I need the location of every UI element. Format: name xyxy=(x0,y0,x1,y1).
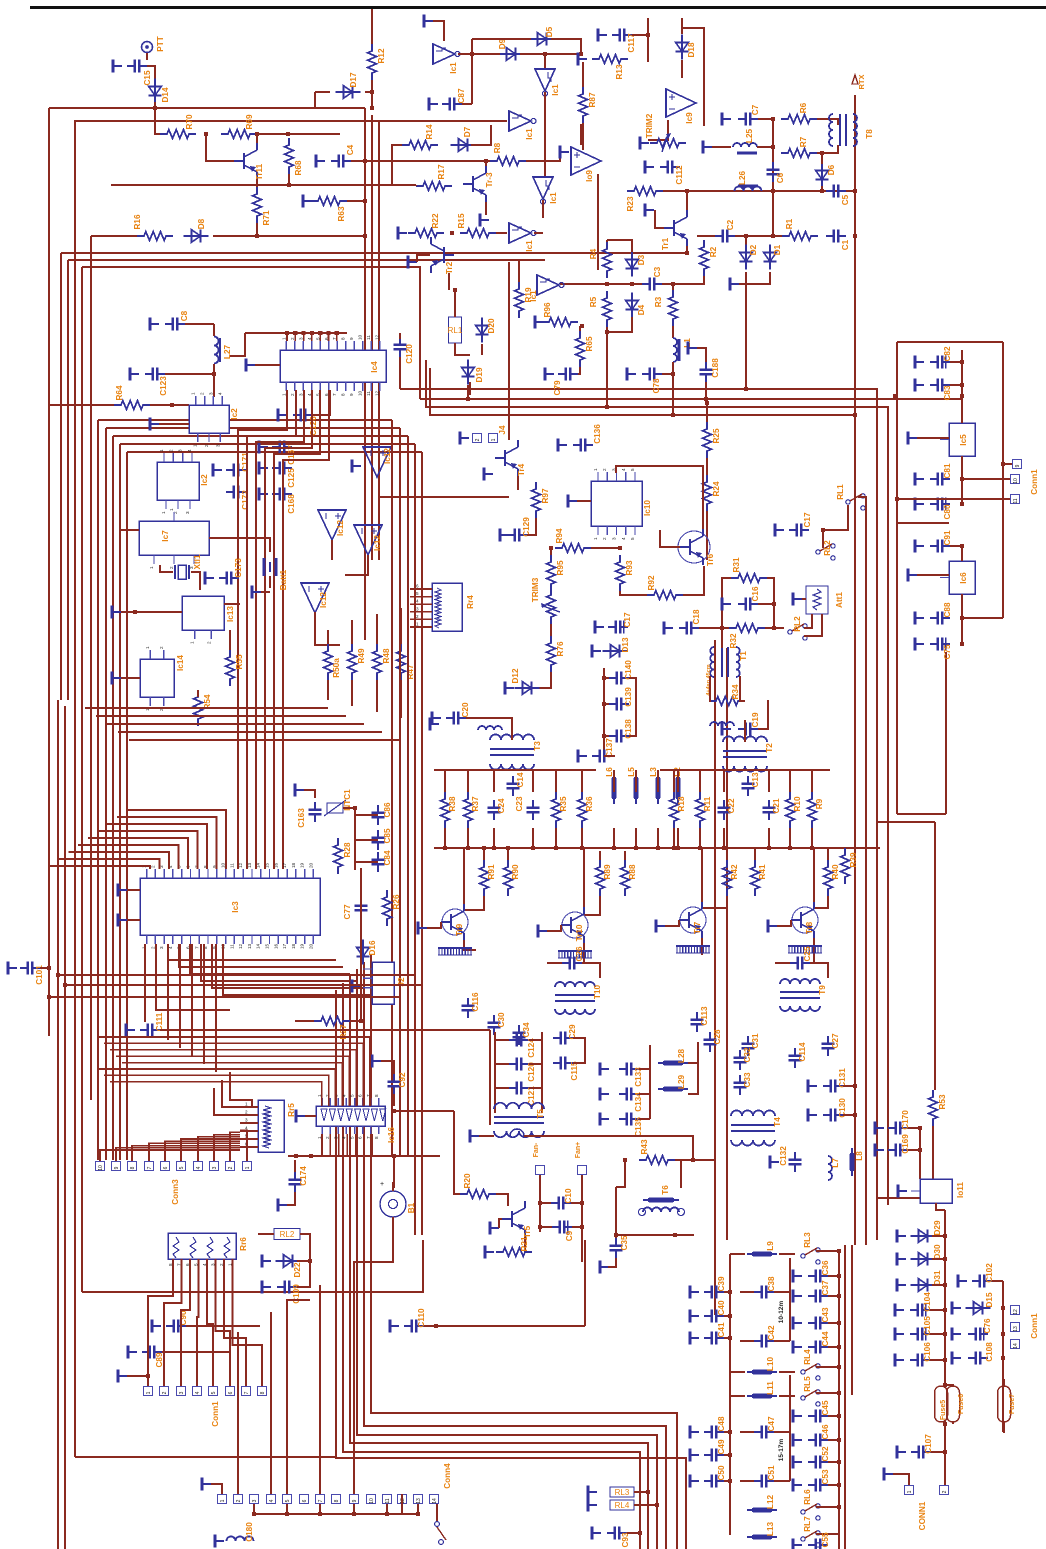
junction xyxy=(837,1345,841,1349)
wire xyxy=(683,566,704,595)
ground xyxy=(656,920,665,933)
capacitor C117 xyxy=(612,29,632,42)
resistor R65 xyxy=(576,331,585,367)
svg-text:5: 5 xyxy=(194,1263,199,1266)
wire xyxy=(229,630,231,650)
ground xyxy=(895,1328,904,1341)
wire row y997 xyxy=(49,996,400,998)
svg-text:2: 2 xyxy=(475,438,481,441)
resistor R2 xyxy=(700,240,709,276)
ground xyxy=(793,593,802,606)
junction xyxy=(153,106,157,110)
svg-text:4: 4 xyxy=(307,337,312,340)
wire xyxy=(822,530,824,548)
diode D22 xyxy=(276,1255,301,1268)
wire bank to bus xyxy=(444,828,446,848)
wire Ic12 out xyxy=(379,479,509,497)
svg-text:16: 16 xyxy=(273,943,278,949)
wire xyxy=(527,518,536,535)
ground xyxy=(259,441,268,454)
ground xyxy=(215,1535,224,1548)
wire rail x495 xyxy=(494,1032,496,1113)
T6 ring left xyxy=(639,1209,646,1216)
capacitor C54 xyxy=(808,1539,828,1549)
svg-text:D30: D30 xyxy=(933,1244,942,1259)
wire vbus x372 xyxy=(371,115,373,560)
svg-text:9: 9 xyxy=(114,1166,120,1169)
wire xyxy=(930,1333,945,1335)
wire Conn1 pin xyxy=(164,1270,182,1386)
wire xyxy=(376,614,378,644)
svg-text:C38: C38 xyxy=(767,1276,776,1291)
ground xyxy=(600,1261,609,1274)
junction xyxy=(634,846,638,850)
svg-text:2: 2 xyxy=(228,1166,234,1169)
ground xyxy=(875,1122,884,1135)
wire xyxy=(481,344,483,355)
svg-text:14: 14 xyxy=(1013,1343,1019,1349)
wire left bus 4 xyxy=(74,120,76,1457)
svg-text:R89: R89 xyxy=(603,864,612,879)
inductor C180 xyxy=(227,1537,254,1542)
wire bank to rail xyxy=(581,770,583,792)
inductor L3 xyxy=(657,772,659,804)
wire Conn3 pin xyxy=(240,1130,247,1161)
wire Ic16 bottom pins xyxy=(363,1134,365,1156)
svg-text:C16: C16 xyxy=(751,586,760,601)
capacitor C173 xyxy=(219,572,239,585)
wire xyxy=(347,200,365,202)
wire xyxy=(606,240,608,242)
wire nested bundle xyxy=(364,962,666,1549)
svg-text:C17: C17 xyxy=(623,612,632,627)
svg-text:C26: C26 xyxy=(575,946,584,961)
svg-text:C20: C20 xyxy=(461,702,470,717)
inductor L13 xyxy=(747,1536,777,1538)
resistor R92 xyxy=(647,591,683,600)
wire rail x730 xyxy=(729,1254,731,1535)
svg-text:3: 3 xyxy=(211,1263,216,1266)
junction xyxy=(285,331,289,335)
svg-text:C9: C9 xyxy=(565,1230,574,1241)
wire xyxy=(699,627,729,629)
wire xyxy=(607,317,632,332)
wire xyxy=(540,1226,552,1228)
wire xyxy=(213,364,215,397)
svg-text:L28: L28 xyxy=(677,1049,686,1064)
relay RL1 xyxy=(448,317,463,343)
wire xyxy=(697,1042,699,1063)
capacitor C116 xyxy=(462,998,475,1018)
wire xyxy=(686,246,688,253)
svg-text:C115: C115 xyxy=(570,1061,579,1081)
inductor L9 xyxy=(747,1253,777,1255)
wire R53 feed xyxy=(934,822,936,1090)
svg-text:2: 2 xyxy=(162,1391,168,1394)
svg-text:C82: C82 xyxy=(943,346,952,361)
svg-text:L27: L27 xyxy=(223,344,232,359)
ground xyxy=(915,498,924,511)
svg-text:2: 2 xyxy=(204,444,209,447)
svg-text:4: 4 xyxy=(621,468,626,471)
capacitor C76 xyxy=(968,1328,988,1341)
junction xyxy=(353,806,357,810)
ground xyxy=(627,368,636,381)
svg-text:13: 13 xyxy=(416,1498,422,1504)
pad Conn1-9 xyxy=(1013,460,1022,469)
ground xyxy=(568,495,577,508)
resistor R97b xyxy=(532,482,541,518)
svg-text:C36: C36 xyxy=(821,1260,830,1275)
pad Conn1-7 xyxy=(242,1387,251,1396)
resistor R41 xyxy=(751,860,760,896)
capacitor C13 xyxy=(742,776,755,796)
junction xyxy=(605,282,609,286)
capacitor C108 xyxy=(968,1352,988,1365)
trimmer TRIM2 arrow xyxy=(662,135,668,152)
ground xyxy=(112,606,121,619)
pad Conn3-4 xyxy=(194,1162,203,1171)
fuse Fuse5 xyxy=(935,1386,948,1422)
capacitor C170 xyxy=(888,1122,908,1135)
svg-text:Tr4: Tr4 xyxy=(517,463,526,476)
ground xyxy=(150,318,159,331)
wire xyxy=(150,404,189,406)
wire xyxy=(327,630,329,644)
resistor R3 xyxy=(669,290,678,326)
wire bank to bus xyxy=(768,828,770,848)
svg-text:1: 1 xyxy=(245,1102,248,1107)
junction xyxy=(960,383,964,387)
wire Ic4 down to Ic3 xyxy=(247,390,296,869)
svg-text:Ic14: Ic14 xyxy=(176,655,185,671)
svg-text:Conn3: Conn3 xyxy=(171,1179,180,1205)
wire xyxy=(392,1217,394,1228)
pad Conn1-2 xyxy=(160,1387,169,1396)
capacitor C188 xyxy=(700,362,713,382)
wire xyxy=(534,232,543,234)
fuse Fuse7 xyxy=(998,1386,1011,1422)
svg-text:RL2: RL2 xyxy=(823,540,832,556)
ground xyxy=(690,1475,699,1488)
svg-text:C77: C77 xyxy=(343,904,352,919)
wire left bus 10 xyxy=(119,444,121,1160)
junction xyxy=(618,546,622,550)
wire Ic3 pin up xyxy=(246,690,248,869)
junction xyxy=(146,1374,150,1378)
capacitor C7 xyxy=(738,113,758,126)
capacitor C35 xyxy=(610,1238,623,1258)
wire Conn1 pin xyxy=(181,1270,190,1386)
wire bank to rail xyxy=(635,770,637,792)
svg-text:C171: C171 xyxy=(241,452,250,472)
capacitor C137 xyxy=(592,750,612,763)
ground xyxy=(915,379,924,392)
wire xyxy=(632,34,648,36)
svg-text:2: 2 xyxy=(206,641,211,644)
svg-text:C123: C123 xyxy=(159,376,168,396)
ground xyxy=(730,278,739,291)
svg-text:3: 3 xyxy=(252,1499,258,1502)
svg-text:D15: D15 xyxy=(985,1292,994,1307)
svg-text:C24: C24 xyxy=(497,798,506,813)
wire xyxy=(962,478,1010,480)
svg-text:C43: C43 xyxy=(821,1307,830,1322)
svg-text:Xtl1: Xtl1 xyxy=(193,554,202,569)
wire xyxy=(499,1219,502,1228)
wire xyxy=(288,174,290,185)
wire xyxy=(724,1431,730,1433)
switch Conn4 xyxy=(435,1522,440,1527)
svg-text:C174: C174 xyxy=(299,1166,308,1186)
svg-text:2: 2 xyxy=(942,1490,948,1493)
wire xyxy=(992,1280,1003,1282)
svg-text:T8: T8 xyxy=(865,129,874,139)
wire xyxy=(639,1068,650,1070)
capacitor C120b xyxy=(509,1058,529,1071)
op-amp Ic12 xyxy=(363,447,391,477)
svg-text:1: 1 xyxy=(149,566,154,569)
ground xyxy=(118,884,127,897)
pad Conn4-6 xyxy=(300,1495,309,1504)
wire xyxy=(584,896,600,915)
svg-text:C14: C14 xyxy=(516,772,525,787)
inverter Ic1b xyxy=(535,69,555,96)
svg-text:C47: C47 xyxy=(767,1416,776,1431)
wire xyxy=(551,39,581,54)
svg-text:R28: R28 xyxy=(343,842,352,857)
resistor R96 xyxy=(542,318,578,327)
svg-text:R48: R48 xyxy=(382,648,391,663)
transformer T3 xyxy=(490,735,534,770)
svg-text:11: 11 xyxy=(229,863,234,868)
wire bank to bus xyxy=(789,828,791,848)
wire rail right bank xyxy=(660,769,830,771)
junction xyxy=(443,846,447,850)
resistor R22 xyxy=(408,229,444,238)
capacitor C49 xyxy=(704,1449,724,1462)
svg-text:L10: L10 xyxy=(766,1357,775,1372)
wire xyxy=(828,1275,839,1277)
wire bank to bus xyxy=(493,828,495,848)
resistor R6 xyxy=(781,115,817,124)
wire xyxy=(639,1118,650,1120)
wire xyxy=(155,102,161,134)
capacitor C31 xyxy=(742,1036,755,1056)
wire bank to rail xyxy=(532,770,534,792)
wire xyxy=(816,1366,839,1368)
wire xyxy=(213,235,365,237)
wire staircase E xyxy=(110,1050,356,1106)
switch RL6 xyxy=(801,1504,820,1520)
svg-text:2: 2 xyxy=(602,537,607,540)
wire xyxy=(765,627,784,629)
op-amp Ic12b xyxy=(354,525,382,555)
svg-text:R53: R53 xyxy=(938,1094,947,1109)
wire xyxy=(821,153,823,164)
svg-text:7: 7 xyxy=(318,1499,324,1502)
wire xyxy=(529,1039,542,1041)
capacitor C24 xyxy=(488,800,501,820)
ground xyxy=(595,621,604,634)
svg-text:3: 3 xyxy=(215,444,220,447)
svg-text:20: 20 xyxy=(308,862,313,868)
wire bank to bus xyxy=(677,828,679,848)
IC Ic6 xyxy=(940,561,975,594)
wire rail Fan+ xyxy=(581,1175,583,1262)
wire xyxy=(740,1431,754,1433)
wire bank to bus xyxy=(467,828,469,848)
capacitor C138 xyxy=(609,730,629,743)
ground xyxy=(908,569,917,582)
wire xyxy=(627,1532,640,1534)
svg-text:5: 5 xyxy=(285,1499,291,1502)
svg-text:C140: C140 xyxy=(624,660,633,680)
junction xyxy=(728,1453,732,1457)
svg-text:C30: C30 xyxy=(497,1012,506,1027)
wire row y985 xyxy=(65,984,422,986)
ground xyxy=(722,723,731,736)
svg-text:D1: D1 xyxy=(773,244,782,255)
wire xyxy=(351,160,365,162)
ground xyxy=(130,368,139,381)
pad Conn3-9 xyxy=(112,1162,121,1171)
wire bank to rail xyxy=(789,770,791,792)
wire xyxy=(472,53,500,55)
junction xyxy=(837,1460,841,1464)
svg-text:2: 2 xyxy=(290,337,295,340)
svg-text:Tr2: Tr2 xyxy=(445,261,454,274)
ground xyxy=(793,1290,802,1303)
junction xyxy=(352,1512,356,1516)
wire xyxy=(777,920,791,926)
wire xyxy=(573,1038,585,1063)
wire Ic4 pin xyxy=(336,333,338,341)
svg-text:3: 3 xyxy=(245,1118,248,1123)
capacitor C174 xyxy=(289,1172,302,1192)
wire bus row y185 xyxy=(111,184,416,186)
wire xyxy=(936,1203,945,1210)
wire left bus 1 xyxy=(48,108,50,1036)
diode D20 xyxy=(476,318,489,343)
wire Ic4 down to Ic3 xyxy=(274,390,320,869)
svg-text:D17: D17 xyxy=(349,72,358,87)
svg-text:5: 5 xyxy=(350,1136,355,1139)
svg-text:2: 2 xyxy=(416,614,419,619)
wire xyxy=(740,1340,754,1342)
svg-text:7: 7 xyxy=(194,946,199,949)
ground xyxy=(352,980,361,993)
diode D6 xyxy=(816,163,829,188)
capacitor C126 xyxy=(293,409,313,422)
ground xyxy=(408,256,417,269)
junction xyxy=(482,846,486,850)
switch RL1 xyxy=(846,494,865,510)
ground xyxy=(424,15,433,28)
svg-text:12: 12 xyxy=(375,334,380,340)
transformer T10 xyxy=(555,982,595,1014)
wire xyxy=(607,240,632,252)
svg-text:R92: R92 xyxy=(647,575,656,590)
wire xyxy=(599,851,601,860)
RTX arrow xyxy=(852,75,858,84)
capacitor C9 xyxy=(552,1221,572,1234)
junction xyxy=(837,1274,841,1278)
svg-text:D31: D31 xyxy=(933,1270,942,1285)
wire bank to rail xyxy=(699,770,701,792)
capacitor C22 xyxy=(718,800,731,820)
diode D29 xyxy=(911,1230,936,1243)
wire xyxy=(315,91,330,93)
junction xyxy=(56,973,60,977)
diode D13 xyxy=(603,645,628,658)
diode D12 xyxy=(515,682,540,695)
svg-text:Io9: Io9 xyxy=(585,170,594,182)
wire xyxy=(529,1063,542,1065)
svg-text:10: 10 xyxy=(221,862,226,868)
wire xyxy=(197,690,199,697)
wire bank to rail xyxy=(613,770,615,792)
junction xyxy=(673,1233,677,1237)
wire xyxy=(660,530,680,547)
wire xyxy=(127,889,140,891)
svg-text:R2: R2 xyxy=(709,246,718,257)
wire xyxy=(147,66,155,80)
wire xyxy=(816,1250,839,1252)
wire xyxy=(269,576,271,588)
wire step y822 xyxy=(877,821,935,823)
capacitor C25 xyxy=(790,957,810,970)
wire Rr6 pin xyxy=(232,1259,234,1270)
capacitor C8 xyxy=(165,318,185,331)
ground xyxy=(952,1302,961,1315)
capacitor C17 xyxy=(789,524,809,537)
diode D17 xyxy=(336,86,361,99)
resistor R21 xyxy=(496,1248,532,1257)
crystal Xtl1 xyxy=(175,565,189,579)
ground xyxy=(205,572,214,585)
capacitor C39 xyxy=(704,1286,724,1299)
junction xyxy=(837,1414,841,1418)
svg-text:R3: R3 xyxy=(654,296,663,307)
wire left bus 1c xyxy=(64,706,66,1549)
wire Rr4 pin xyxy=(410,603,432,605)
wire staircase xyxy=(129,739,400,741)
wire rail c88 xyxy=(961,594,963,644)
resistor R64 xyxy=(114,401,150,410)
resistor R15 xyxy=(460,229,496,238)
resistor R24 xyxy=(703,475,712,511)
wire xyxy=(804,614,822,636)
svg-text:C126: C126 xyxy=(309,416,318,436)
wire xyxy=(724,1315,730,1317)
wire xyxy=(745,284,747,389)
svg-text:1: 1 xyxy=(220,1499,226,1502)
inductor L12 xyxy=(747,1509,777,1511)
wire T5 out xyxy=(524,1136,693,1160)
svg-text:Ic12: Ic12 xyxy=(373,535,382,551)
switch RL3 xyxy=(801,1248,820,1264)
wire xyxy=(365,91,372,93)
pad Conn3-5 xyxy=(177,1162,186,1171)
wire bank to rail xyxy=(723,770,725,792)
inductor L25 xyxy=(733,143,757,147)
wire xyxy=(1003,1380,1004,1386)
junction xyxy=(392,1109,396,1113)
svg-text:C35: C35 xyxy=(620,1235,629,1250)
ground xyxy=(152,1320,161,1333)
wire D18 loop xyxy=(682,28,704,126)
